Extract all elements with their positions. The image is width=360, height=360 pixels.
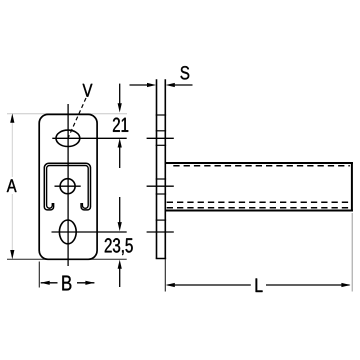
extension line bottom (A / 23,5 datum) bbox=[7, 258, 127, 260]
L left extension bbox=[164, 259, 166, 291]
bottom slotted hole bbox=[59, 220, 76, 244]
channel tube (side) bottom bbox=[167, 201, 350, 203]
dim L bbox=[168, 284, 251, 286]
L right extension bbox=[351, 213, 353, 292]
tube right end bbox=[351, 162, 353, 212]
dim A bbox=[11, 116, 13, 257]
plate centerline bbox=[67, 104, 69, 266]
mounting plate outline (front view) bbox=[39, 114, 97, 259]
side plate verticals bbox=[156, 79, 158, 258]
leader dashed V bbox=[68, 98, 86, 138]
top oval centerline bbox=[52, 137, 126, 139]
dim 21 bbox=[119, 84, 121, 104]
dim B bbox=[41, 282, 58, 284]
channel cutout (strut profile, double line) bbox=[44, 163, 90, 210]
dim 23,5 bbox=[119, 197, 121, 223]
channel tube (side) top bbox=[165, 162, 353, 164]
middle hole bbox=[60, 179, 75, 194]
bottom oval centerline bbox=[52, 231, 127, 233]
middle circle centerline bbox=[55, 185, 81, 187]
top slotted hole bbox=[56, 130, 80, 146]
side ticks: hole edges bbox=[156, 114, 166, 116]
dim S bbox=[130, 84, 149, 86]
extension line top (A / 21 datum) bbox=[7, 113, 127, 115]
label V bbox=[83, 84, 93, 97]
side plate bottom bbox=[156, 258, 166, 260]
B extension left bbox=[38, 262, 40, 288]
side ticks: hole centerlines bbox=[147, 137, 174, 139]
